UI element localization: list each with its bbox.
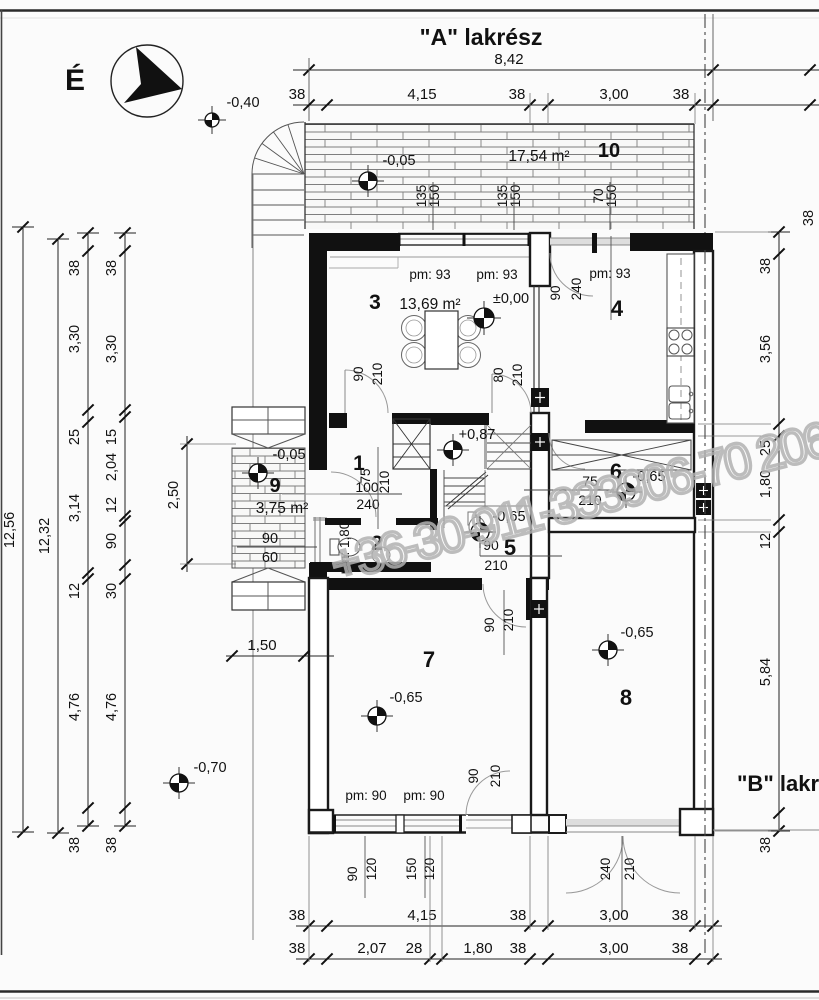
svg-text:É: É [65,63,85,97]
right plot line extension [713,829,819,831]
room 1 number [353,452,365,475]
svg-text:120: 120 [422,858,437,881]
terrace window dimension labels [414,182,619,230]
svg-text:240: 240 [356,496,380,512]
terrace room 10 brick hatch [305,122,694,229]
site boundary dash-dot line [704,14,706,955]
svg-text:240: 240 [569,278,584,301]
svg-text:3,75 m²: 3,75 m² [256,500,309,517]
central wall top pillar hollow [530,233,550,286]
svg-text:38: 38 [104,260,120,276]
door room 3 right 80 with labels [491,364,531,413]
room 1 room 2 divider wall [325,518,438,525]
chimney flue central wall mid [531,433,549,451]
bottom wall left corner [309,810,333,833]
door room 4 to corridor [524,433,614,508]
svg-text:4: 4 [611,296,624,321]
porch labels [237,447,317,566]
left dimension chain 12,56 [2,221,34,837]
svg-text:210: 210 [501,609,516,632]
svg-text:38: 38 [673,86,690,103]
stair landing wall [431,415,489,425]
svg-text:3,14: 3,14 [67,494,83,522]
room 5 number [504,535,516,560]
svg-text:1,50: 1,50 [247,637,276,654]
room 4 number [611,296,624,321]
svg-text:-0,65: -0,65 [620,625,653,641]
room 1 door labels [282,447,402,529]
svg-text:38: 38 [289,86,306,103]
bottom dimension chain detail [289,940,722,965]
svg-text:38: 38 [509,86,526,103]
terrace door sill into room 4 [550,233,630,253]
terrace labels [508,140,620,165]
stair hall side wall [430,469,437,530]
left outer wall upper solid [309,233,327,470]
svg-text:8: 8 [620,685,632,710]
svg-text:150: 150 [508,185,523,208]
svg-text:9: 9 [269,475,280,497]
room 4 south wall solid [585,420,694,433]
level mark 0,00 room 3 [467,301,501,335]
svg-text:5,84: 5,84 [758,658,774,686]
svg-text:pm: 93: pm: 93 [409,267,450,282]
stair upper flight treads [486,425,532,469]
left dimension chain detail 1 [67,227,99,853]
svg-text:12,56: 12,56 [2,512,18,548]
level mark -0,70 [163,767,195,799]
svg-text:3,30: 3,30 [67,325,83,353]
svg-text:4,15: 4,15 [407,86,436,103]
room 3 number and area [369,291,460,314]
svg-text:90: 90 [351,366,366,381]
svg-text:"B" lakrész: "B" lakrész [737,771,819,796]
svg-text:+0,87: +0,87 [459,427,496,443]
svg-text:210: 210 [377,471,392,494]
svg-text:pm: 90: pm: 90 [345,788,386,803]
page frame bottom border [0,992,819,999]
room 7 room 8 divider wall hollow [531,578,547,815]
svg-text:100: 100 [355,479,379,495]
door porch to room 1 [331,472,376,517]
level mark -0,65 room 8 [592,634,624,666]
chimney flue central wall upper [531,388,549,407]
svg-text:90: 90 [466,768,481,783]
svg-text:38: 38 [758,837,774,853]
svg-text:3,56: 3,56 [758,335,774,363]
room 2 south wall solid [310,562,431,572]
svg-text:4,76: 4,76 [67,693,83,721]
central wall middle hollow [531,413,549,578]
room 7 south door opening [466,815,531,833]
svg-text:3,00: 3,00 [599,907,628,924]
walk dimension 1,50 [226,637,334,662]
svg-text:150: 150 [604,185,619,208]
svg-text:2,07: 2,07 [357,940,386,957]
svg-text:38: 38 [104,837,120,853]
svg-text:210: 210 [370,363,385,386]
left dimension chain detail 2 [104,227,136,853]
svg-text:15: 15 [104,429,120,445]
top dimension chain segments [289,86,819,124]
svg-text:12: 12 [67,583,83,599]
svg-text:-0,65: -0,65 [389,690,422,706]
svg-text:2,50: 2,50 [166,481,182,509]
svg-text:12: 12 [104,497,120,513]
room 8 number [620,685,632,710]
terrace door to room 4 with labels [548,236,611,320]
door room 7 north with labels [482,584,526,655]
chimney flues right wall [696,483,711,515]
room 5 door labels [480,520,562,573]
top wall left solid segment [309,233,530,268]
north symbol E with arrow circle [65,45,183,117]
top dimension chain 8,42 [293,14,819,121]
room 3 south wall solid [329,413,489,428]
right dimension chain [698,226,790,853]
window parapet labels pm 93 [409,266,630,282]
svg-text:3,00: 3,00 [599,86,628,103]
svg-text:4,76: 4,76 [104,693,120,721]
door room 7 south with labels [466,765,510,815]
svg-text:3,00: 3,00 [599,940,628,957]
svg-text:90: 90 [104,533,120,549]
svg-text:3,30: 3,30 [104,335,120,363]
svg-text:38: 38 [289,940,306,957]
dining table with chairs room 3 [402,311,481,369]
svg-text:80: 80 [491,367,506,382]
stair level mark +0,87 [437,434,469,466]
terrace level mark -0,05 [352,165,384,197]
svg-text:17,54 m²: 17,54 m² [508,148,569,165]
svg-text:38: 38 [510,940,527,957]
svg-text:150: 150 [404,858,419,881]
svg-text:90: 90 [262,531,278,547]
porch room 9 structure [232,407,305,610]
page frame top border [0,11,819,19]
left dimension chain 12,32 [37,233,69,838]
svg-text:38: 38 [510,907,527,924]
bottom witness lines [309,836,713,962]
stair void box with cross [393,419,430,469]
chimney flue divider wall [531,600,547,618]
page frame left border [1,10,3,955]
svg-text:90: 90 [482,617,497,632]
svg-text:8,42: 8,42 [494,51,523,68]
svg-text:120: 120 [364,858,379,881]
toilet room 2 [330,538,360,556]
room 2 pm label [337,522,352,575]
central partition wall thin upper [534,286,539,413]
svg-text:12: 12 [758,533,774,549]
stair lower treads [444,470,531,528]
svg-text:38: 38 [801,210,817,226]
left outer wall lower hollow [309,578,328,833]
room 7 north wall solid [329,578,549,620]
svg-text:7: 7 [423,647,435,672]
porch level mark [242,457,274,489]
svg-text:-0,70: -0,70 [193,760,226,776]
top wall right solid segment [630,233,713,251]
svg-text:38: 38 [67,260,83,276]
svg-text:1,80: 1,80 [463,940,492,957]
level mark -0,65 room 5 [464,516,496,548]
svg-text:90: 90 [345,866,360,881]
window parapet labels pm 90 room 7 [345,788,444,803]
level mark -0,65 room 7 [361,700,393,732]
bottom dimension chain segments [289,907,722,932]
svg-text:3: 3 [369,291,381,314]
svg-text:-0,05: -0,05 [272,447,305,463]
edge dimension label fragment [801,210,817,226]
svg-text:pm: 93: pm: 93 [589,266,630,281]
room 7 number [423,647,435,672]
exterior winder stair [252,122,304,248]
top wall window band room 3 [398,233,530,246]
level mark -0,65 room 6 [610,476,642,508]
svg-text:1: 1 [353,452,365,475]
bottom window dimension labels [345,836,437,898]
vertical reference line through stair [252,174,254,940]
svg-text:30: 30 [104,583,120,599]
gallery cross band corridor [552,440,691,470]
svg-text:25: 25 [67,429,83,445]
svg-text:pm: 90: pm: 90 [403,788,444,803]
svg-text:38: 38 [758,258,774,274]
svg-text:38: 38 [672,940,689,957]
site boundary dash-dot overlay [704,250,706,836]
svg-text:pm: 93: pm: 93 [476,267,517,282]
watermark phone number [325,411,819,593]
svg-text:38: 38 [289,907,306,924]
svg-text:4,15: 4,15 [407,907,436,924]
kitchen counter room 4 [667,254,694,423]
room 2 number [371,532,383,555]
porch entrance door opening sidelight [309,517,327,578]
svg-text:38: 38 [672,907,689,924]
svg-text:38: 38 [67,837,83,853]
svg-text:240: 240 [598,858,613,881]
label "B" lakresz [737,771,819,796]
bottom wall room 8 segments [549,809,713,835]
svg-text:12,32: 12,32 [37,518,53,554]
porch dimension 2,50 [166,436,236,572]
svg-text:-0,05: -0,05 [382,153,415,169]
bottom wall room 7 with windows [309,815,566,833]
svg-text:28: 28 [406,940,423,957]
title "A" lakresz [420,24,543,50]
svg-text:13,69 m²: 13,69 m² [399,296,460,313]
svg-text:±0,00: ±0,00 [493,291,529,307]
wc room 5 [468,512,485,537]
svg-text:"A" lakrész: "A" lakrész [420,24,543,50]
svg-text:10: 10 [598,140,620,162]
right outer wall hollow [694,251,713,833]
svg-text:2,04: 2,04 [104,453,120,481]
svg-text:210: 210 [488,765,503,788]
entrance double door room 8 [566,836,680,912]
svg-text:60: 60 [262,550,278,566]
door room 3 left with labels [345,363,388,413]
svg-text:210: 210 [510,364,525,387]
svg-text:150: 150 [427,185,442,208]
svg-text:-0,40: -0,40 [226,95,259,111]
svg-text:90: 90 [548,285,563,300]
svg-text:210: 210 [622,858,637,881]
room 6 number [610,459,622,484]
level mark -0,40 [198,106,226,134]
room 8 north wall hollow [549,518,695,532]
washbasin room 2 [372,547,390,563]
